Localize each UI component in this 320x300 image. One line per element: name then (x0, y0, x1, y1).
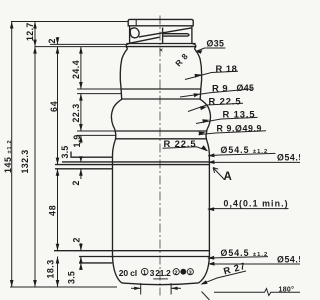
label line upper C short (55, 168, 113, 170)
arrow 2 top down (56, 37, 60, 44)
label line upper B (55, 164, 209, 166)
leader R9 O49.9 (199, 131, 267, 135)
ring2 line B (115, 138, 206, 140)
dim stub 2 lower (80, 243, 82, 251)
base pushup tick left (140, 283, 142, 294)
bottle lip (128, 19, 193, 25)
label line upper A (62, 161, 209, 163)
svg-text:21.2: 21.2 (155, 268, 171, 278)
arrowheads (10, 22, 215, 291)
bottle right edge (194, 49, 210, 259)
svg-text:Ø54.5: Ø54.5 (277, 254, 300, 264)
svg-text:0,4(0.1 min.): 0,4(0.1 min.) (224, 199, 289, 209)
leader R22.5 first (188, 103, 243, 111)
arrow R13.5 (202, 119, 209, 123)
arrow 1.9 up (79, 135, 83, 142)
underline 21.2 (153, 278, 168, 280)
label line lower A (54, 250, 209, 252)
arrow 22.3 top (79, 94, 83, 101)
svg-text:3.5: 3.5 (60, 145, 70, 158)
baseline (10, 286, 117, 288)
svg-text:3: 3 (150, 268, 155, 278)
neck bead top line (126, 43, 195, 45)
dim stub 3.5 lower (80, 263, 82, 270)
dim line 64 (57, 47, 59, 165)
arrow 48 bottom (56, 244, 60, 251)
arrow 48 top (56, 169, 60, 176)
line to 180 note with break (214, 289, 300, 296)
svg-text:Ø54.5: Ø54.5 (277, 153, 300, 163)
svg-text:R 18: R 18 (216, 63, 238, 74)
svg-text:24.4: 24.4 (71, 60, 81, 79)
base pushup dim right (171, 287, 181, 289)
arrow 0.4 (208, 207, 215, 211)
svg-text:180°: 180° (279, 286, 295, 294)
arrow R9 O49.9 (199, 132, 206, 136)
dim stub 2 lower b (80, 257, 82, 263)
svg-text:48: 48 (48, 205, 58, 216)
arrow 2l up (79, 257, 83, 264)
svg-text:3.5: 3.5 (67, 271, 77, 284)
dim line 48 (57, 169, 59, 251)
bottle left edge (111, 49, 127, 259)
thread start blob (130, 28, 139, 38)
dim line 18.3 (57, 257, 59, 288)
thread lens top (163, 34, 189, 36)
extension line 135.4 (77, 134, 116, 136)
dim line col3 top stub (57, 37, 59, 44)
leader R18 (185, 71, 238, 79)
arrow 2u up (79, 169, 83, 176)
bracket 3.5 upper (71, 152, 113, 158)
svg-text:A: A (224, 171, 232, 183)
center x mark (160, 49, 163, 52)
svg-text:2: 2 (47, 39, 57, 44)
arrow R9 O45 (194, 93, 201, 97)
svg-text:22.3: 22.3 (71, 103, 81, 122)
arrow pushup right (171, 287, 178, 290)
dim line 132 (34, 22, 36, 288)
neck bead right edge (192, 44, 196, 49)
dim stub 3.5 upper (80, 157, 82, 162)
arrow 24.4 top (79, 47, 83, 54)
ring1 line B (122, 98, 201, 100)
arrow R18 (195, 74, 202, 78)
svg-text:R 9.Ø49.9: R 9.Ø49.9 (217, 124, 263, 134)
svg-text:R 13.5: R 13.5 (223, 108, 256, 119)
dim line 22.3 (80, 94, 82, 131)
arrow 18.3 top (56, 257, 60, 264)
extension line 131 (77, 130, 115, 132)
arrow 2l down (79, 244, 83, 251)
arrow R27 (200, 280, 207, 284)
label line lower B (79, 256, 209, 258)
base right corner (199, 256, 210, 283)
thread seam (162, 28, 164, 44)
extension line 89 (77, 88, 121, 90)
svg-text:132.3: 132.3 (20, 149, 30, 173)
underline O54.5 mid edge (210, 161, 300, 163)
dim stub 1.9 (80, 135, 82, 143)
neck bead left edge (126, 44, 129, 49)
mold marking 20cl (119, 268, 194, 279)
arrow pushup left (134, 287, 141, 290)
base bottom (122, 283, 199, 285)
arrow 18.3 bottom (56, 280, 60, 287)
leader R27 (202, 271, 246, 284)
arrows 132.3 dim (33, 47, 37, 54)
arrow R22.5 first (200, 106, 207, 110)
ring1 line A (121, 88, 202, 90)
arrow O54.5 low edge (208, 262, 215, 266)
leader O35 (196, 48, 226, 52)
arrow O54.5 mid (208, 153, 215, 157)
arrows 145 dim (10, 22, 14, 29)
svg-text:64: 64 (49, 101, 59, 112)
svg-text:2: 2 (174, 270, 177, 276)
arrow 22.3 bottom (79, 124, 83, 131)
svg-text:Ø45: Ø45 (237, 83, 255, 93)
base pushup tick right (170, 283, 172, 294)
thread helix upper (139, 28, 192, 37)
svg-text:12.7: 12.7 (25, 22, 35, 41)
corner tick diagonal (202, 292, 210, 300)
base pushup dim left (131, 287, 141, 289)
extension line 44.4 (50, 43, 126, 45)
arrow 24.4 bottom (79, 82, 83, 89)
svg-text:18.3: 18.3 (46, 259, 56, 278)
label line lower C short (79, 262, 112, 264)
lip seam tick (135, 19, 137, 25)
svg-text:2: 2 (72, 238, 82, 243)
arrow O54.5 mid edge (208, 160, 215, 164)
extension line 93.6 (77, 93, 121, 95)
ring2 line A (115, 130, 206, 132)
arrow 64 top (56, 47, 60, 54)
neck left wall (129, 26, 131, 44)
leader R13.5 (196, 117, 258, 123)
extension line 46.6 (35, 46, 126, 48)
centerline (159, 16, 161, 296)
svg-text:R 22.5: R 22.5 (164, 138, 197, 149)
neck right wall (191, 26, 193, 44)
arrows 12.7 dim (33, 22, 37, 29)
svg-text:20 cl: 20 cl (119, 268, 137, 278)
arrow O35 (196, 50, 203, 54)
svg-text:1.9: 1.9 (72, 134, 82, 147)
base left corner (113, 256, 122, 283)
leader 0.4 note (208, 208, 289, 211)
dim line 145 (11, 22, 13, 288)
leader O54.5 low (208, 257, 268, 259)
svg-text:2: 2 (71, 181, 81, 186)
arrow O54.5 low (208, 256, 215, 260)
svg-text:R 22.5: R 22.5 (209, 96, 242, 107)
arrow 3.5l up (79, 263, 83, 270)
neck bead mid line (126, 46, 196, 48)
arrow 64 bottom (56, 158, 60, 165)
underline O54.5 low edge (210, 263, 300, 265)
section arrow A (213, 168, 224, 180)
arrow R22.5 second (201, 145, 207, 151)
svg-text:Ø35: Ø35 (207, 39, 225, 49)
leader R22.5 second (163, 147, 208, 151)
dim line 24.4 (80, 47, 82, 89)
thread helix lower (130, 37, 160, 43)
leader O54.5 mid (208, 153, 275, 155)
leader R9 O45 (180, 89, 252, 97)
dim stub 2 upper (80, 169, 82, 179)
extension line top (11, 21, 128, 23)
svg-text:R 9: R 9 (212, 82, 228, 93)
arrow 3.5u down (79, 156, 83, 162)
